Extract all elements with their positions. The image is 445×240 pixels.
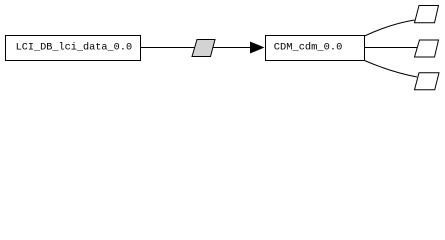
wire output middle	[365, 47, 418, 49]
wire output top	[365, 20, 415, 36]
output file parallelogram top	[415, 6, 439, 23]
node CDM_cdm_0.0 box	[266, 36, 365, 61]
gray parallelogram (intermediate file)	[192, 40, 215, 57]
wire output bottom	[365, 61, 418, 78]
wire input: job box to stage-in file	[141, 47, 251, 49]
output file parallelogram middle	[415, 40, 439, 57]
svg-text:LCI_DB_lci_data_0.0: LCI_DB_lci_data_0.0	[16, 42, 133, 54]
node LCI_DB_lci_data_0.0 box	[6, 36, 141, 61]
output file parallelogram bottom	[415, 73, 440, 90]
svg-text:CDM_cdm_0.0: CDM_cdm_0.0	[274, 42, 343, 54]
arrowhead into CDM box	[250, 42, 265, 54]
